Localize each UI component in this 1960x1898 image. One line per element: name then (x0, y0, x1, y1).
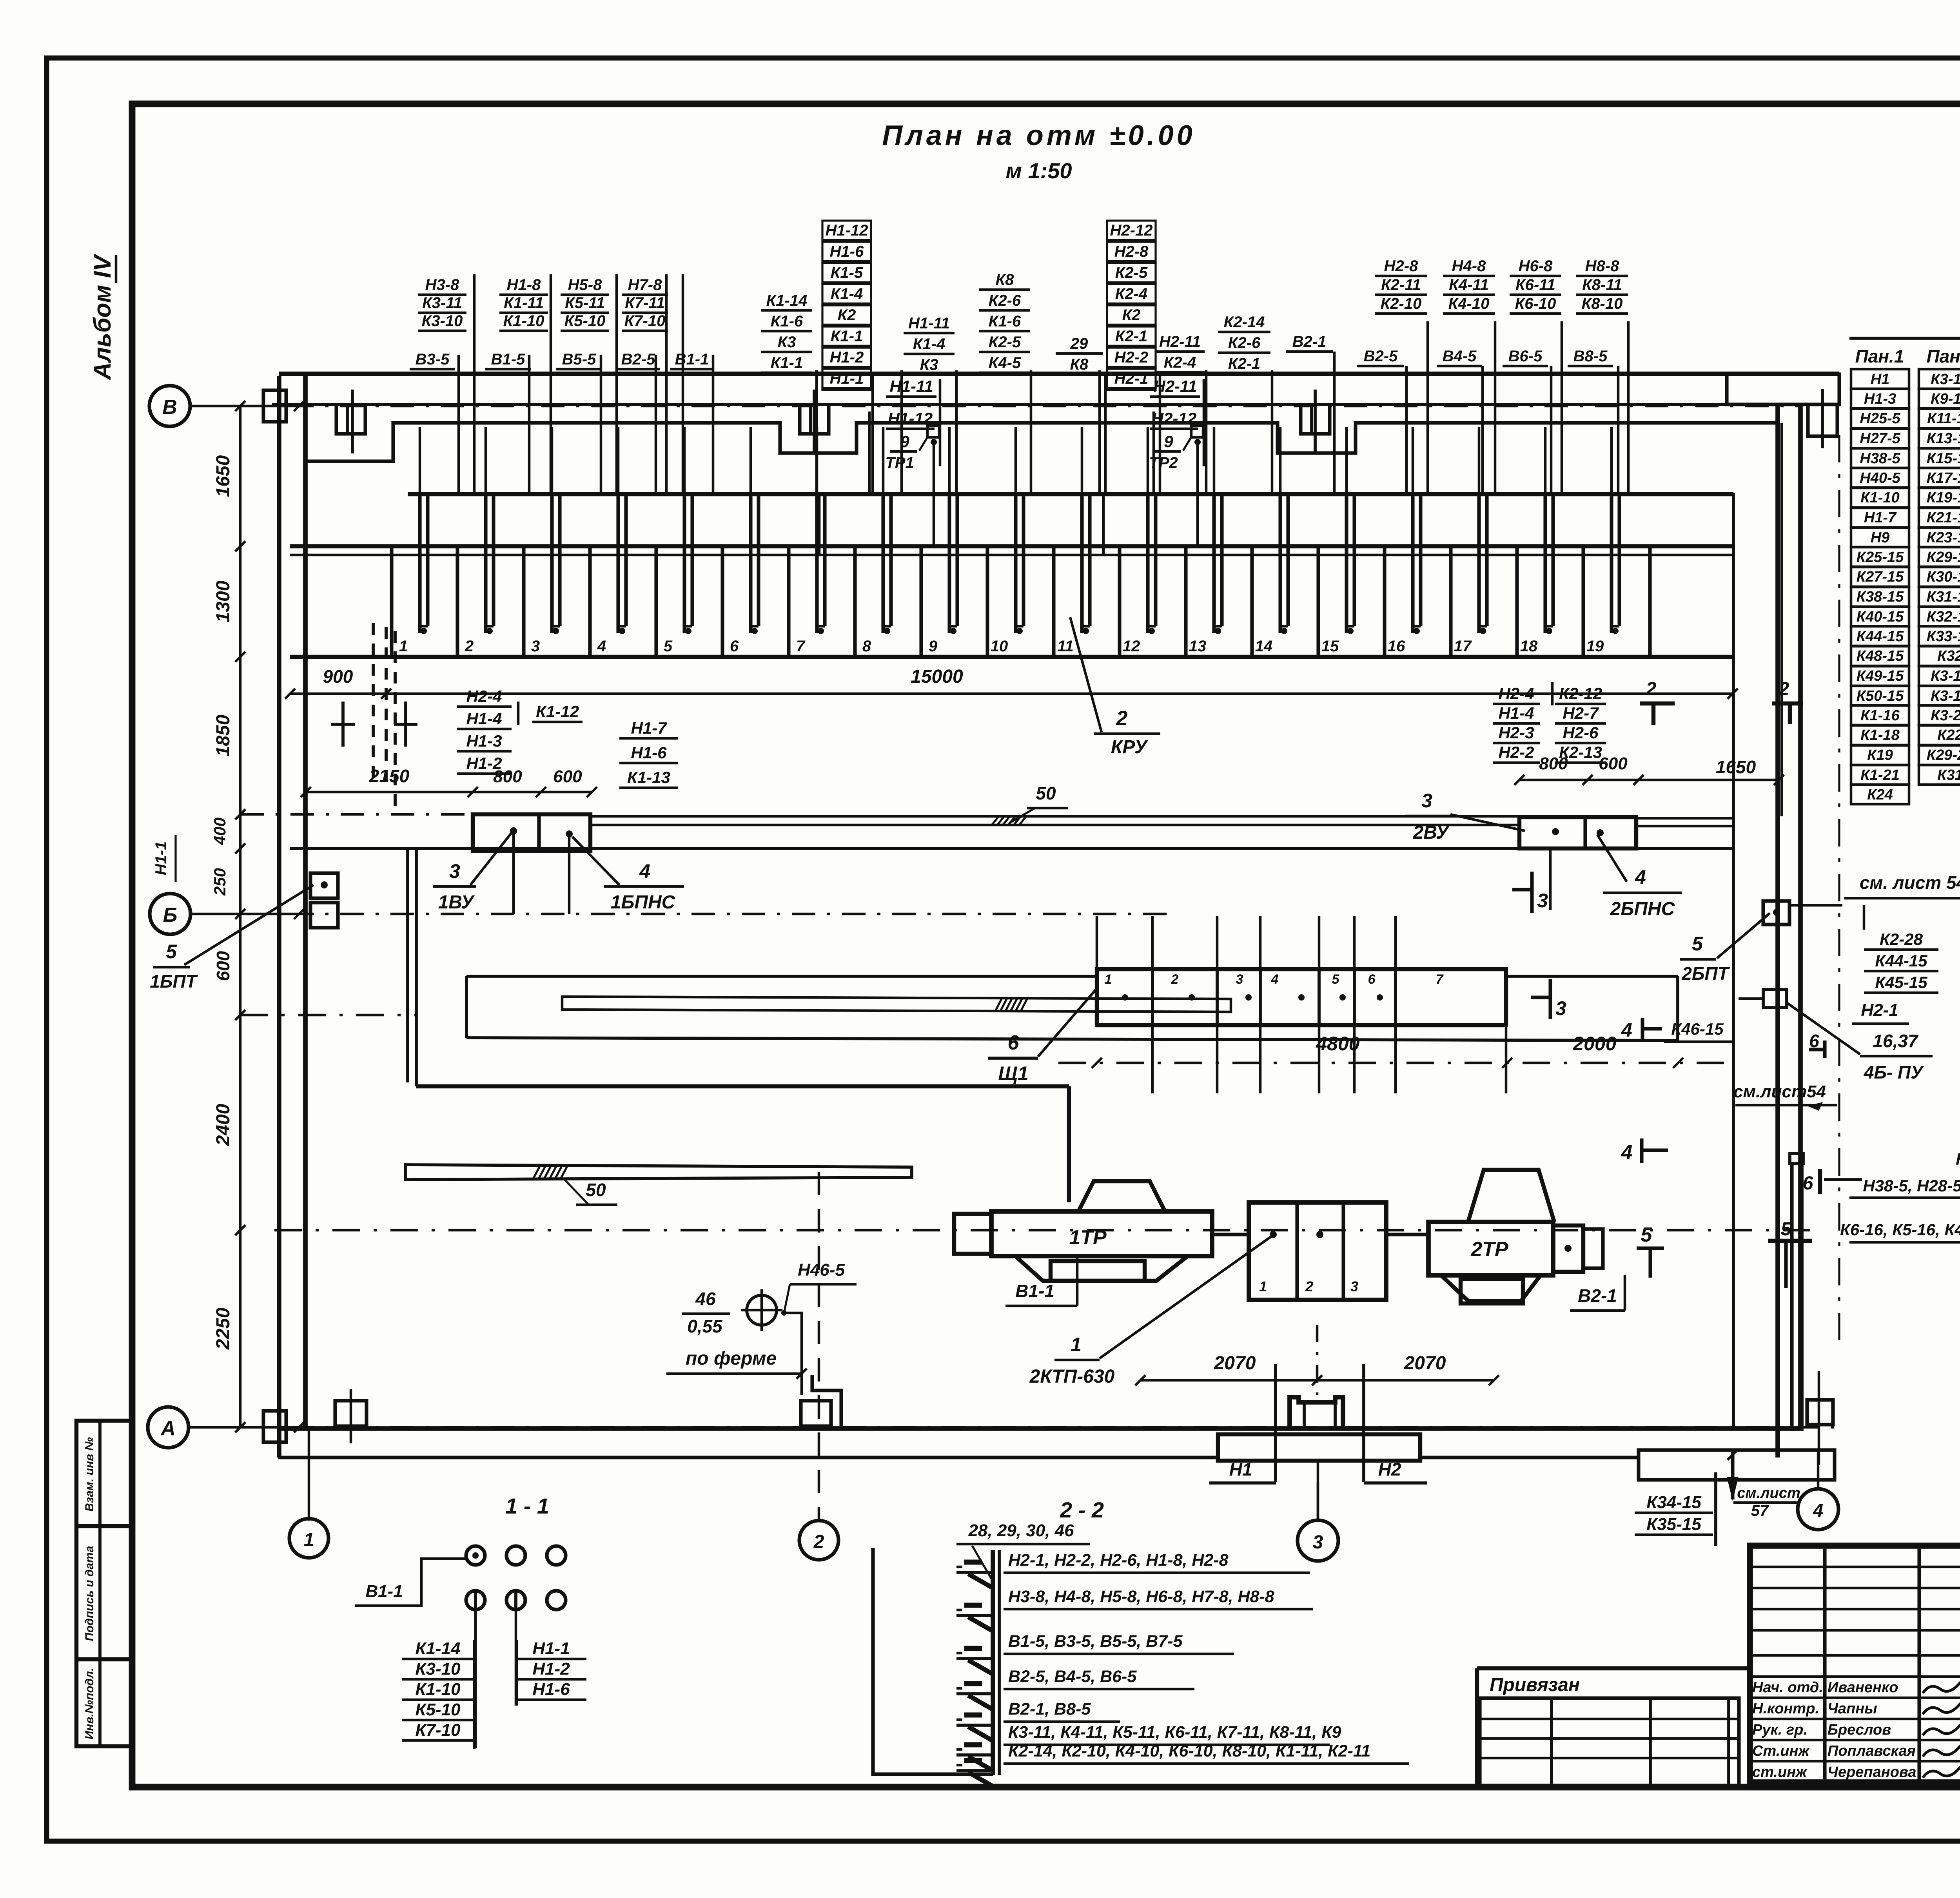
grid axis В line (190, 405, 290, 408)
svg-text:Нач. отд.: Нач. отд. (1752, 1679, 1823, 1696)
title block outer box (1750, 1546, 1960, 1782)
svg-text:К17-15: К17-15 (1927, 470, 1960, 486)
svg-text:4: 4 (597, 638, 606, 655)
svg-text:13: 13 (1189, 638, 1207, 655)
cable route to 2КТП (416, 1084, 1069, 1088)
left wall pilaster at В (263, 390, 286, 422)
svg-text:Н1-12: Н1-12 (888, 409, 933, 428)
svg-text:16: 16 (1388, 638, 1405, 655)
svg-text:К6-16, К5-16, К4-16, К3-16, К2: К6-16, К5-16, К4-16, К3-16, К2-16, К1-16 (1840, 1220, 1960, 1239)
svg-text:1850: 1850 (213, 714, 234, 756)
svg-text:К4-10: К4-10 (1448, 295, 1490, 312)
svg-text:Н8-8: Н8-8 (1585, 257, 1619, 275)
svg-text:2250: 2250 (213, 1307, 234, 1350)
svg-text:2: 2 (1116, 707, 1128, 730)
transformer 1ТР bottom skirt (1015, 1256, 1188, 1281)
svg-text:2 - 2: 2 - 2 (1060, 1497, 1104, 1522)
svg-text:1БПТ: 1БПТ (150, 971, 198, 992)
left dimension chain (239, 406, 242, 1427)
svg-text:Щ1: Щ1 (998, 1062, 1028, 1084)
svg-text:4: 4 (1271, 972, 1279, 987)
substation 2КТП-630 (1249, 1202, 1386, 1300)
lower channel bottom edge (466, 1038, 1678, 1041)
svg-text:0,55: 0,55 (687, 1316, 723, 1336)
grid axis В circle (149, 386, 190, 426)
svg-text:К1-12: К1-12 (536, 702, 579, 721)
svg-text:6: 6 (1803, 1173, 1813, 1194)
svg-text:ТР1: ТР1 (885, 454, 914, 471)
pilaster boxes at Б (310, 873, 338, 898)
svg-text:3: 3 (1350, 1278, 1358, 1294)
svg-text:К19-15: К19-15 (1927, 489, 1960, 506)
axis 4 circle (1798, 1489, 1838, 1530)
svg-text:В1-1: В1-1 (675, 351, 709, 368)
svg-text:3: 3 (1313, 1532, 1323, 1553)
svg-text:11: 11 (1057, 638, 1074, 655)
svg-text:К5-10: К5-10 (564, 312, 606, 330)
svg-text:Н2-4: Н2-4 (1498, 684, 1534, 703)
svg-text:Н1: Н1 (1871, 371, 1890, 388)
svg-text:250: 250 (211, 868, 229, 896)
2БПТ box (1763, 901, 1789, 925)
right wall riser (1732, 493, 1735, 1428)
svg-text:3: 3 (1236, 972, 1243, 987)
svg-text:К21-15: К21-15 (1927, 509, 1960, 526)
axis 1 circle (289, 1519, 328, 1558)
svg-text:6: 6 (1368, 972, 1376, 987)
svg-text:Н5-8: Н5-8 (568, 276, 602, 294)
svg-text:К25-15: К25-15 (1857, 549, 1904, 566)
grid axis А circle (148, 1407, 189, 1448)
svg-text:2ТР: 2ТР (1470, 1238, 1508, 1261)
svg-text:2070: 2070 (1214, 1353, 1256, 1374)
dimension 2070 2070 (1140, 1379, 1494, 1382)
svg-text:Н2-8: Н2-8 (1384, 257, 1418, 275)
machine-hall centre axis (274, 1229, 1819, 1232)
svg-text:Н2-8: Н2-8 (1114, 243, 1149, 260)
svg-text:Ст.инж: Ст.инж (1752, 1743, 1810, 1759)
svg-text:К1-10: К1-10 (503, 312, 544, 330)
svg-text:К2-1: К2-1 (1115, 328, 1147, 345)
svg-text:К1-10: К1-10 (415, 1680, 461, 1699)
svg-text:4800: 4800 (1316, 1033, 1359, 1055)
svg-text:9: 9 (900, 432, 909, 451)
svg-text:1: 1 (399, 638, 408, 655)
svg-text:6: 6 (1809, 1031, 1819, 1051)
svg-text:В2-5: В2-5 (1364, 348, 1398, 365)
svg-text:Н1-1: Н1-1 (830, 370, 864, 387)
svg-text:К2-14, К2-10, К4-10, К6-10, К8: К2-14, К2-10, К4-10, К6-10, К8-10, К1-11… (1008, 1742, 1370, 1760)
svg-text:2БПНС: 2БПНС (1610, 899, 1675, 919)
svg-text:3: 3 (449, 860, 460, 882)
svg-text:В2-5, В4-5, В6-5: В2-5, В4-5, В6-5 (1008, 1667, 1137, 1686)
section mark 3 at channel (1548, 979, 1552, 1019)
dimension 4800 2000 (1092, 1058, 1102, 1068)
section mark 3 below 1ВУ row (1530, 872, 1534, 913)
svg-text:К2-13: К2-13 (1559, 743, 1602, 761)
svg-text:К2-6: К2-6 (989, 292, 1021, 309)
svg-text:1300: 1300 (213, 580, 234, 622)
axis 2 circle (799, 1521, 838, 1560)
svg-text:5: 5 (1692, 933, 1703, 955)
svg-text:К3-16: К3-16 (1931, 668, 1960, 684)
svg-text:29: 29 (1070, 335, 1088, 352)
svg-text:Н2-1: Н2-1 (1114, 370, 1149, 387)
svg-text:К34-15: К34-15 (1646, 1493, 1701, 1512)
cross tick symbols (341, 702, 345, 747)
svg-text:50: 50 (586, 1180, 606, 1200)
svg-text:3: 3 (1537, 890, 1548, 912)
svg-text:Инв.№подл.: Инв.№подл. (83, 1668, 96, 1740)
svg-text:600: 600 (553, 767, 582, 786)
svg-text:2: 2 (1779, 679, 1789, 700)
bottom wall column at axis 1 (335, 1401, 367, 1426)
svg-text:В8-5: В8-5 (1573, 348, 1608, 365)
svg-text:Н1-11: Н1-11 (908, 315, 950, 332)
svg-text:К2: К2 (838, 306, 856, 324)
section 1-1 cable circles row 1 (466, 1546, 485, 1565)
svg-text:К8-11: К8-11 (1582, 276, 1622, 294)
svg-text:В1-5, В3-5, В5-5, В7-5: В1-5, В3-5, В5-5, В7-5 (1008, 1632, 1183, 1651)
svg-text:К2-5: К2-5 (989, 334, 1021, 351)
svg-text:7: 7 (1436, 972, 1444, 987)
svg-text:2: 2 (813, 1532, 824, 1552)
svg-text:Чапны: Чапны (1828, 1700, 1877, 1717)
svg-text:Н3-8, Н4-8, Н5-8, Н6-8, Н7-8,: Н3-8, Н4-8, Н5-8, Н6-8, Н7-8, Н8-8 (1008, 1587, 1274, 1606)
svg-text:7: 7 (796, 638, 806, 655)
svg-text:ст.инж: ст.инж (1752, 1764, 1808, 1780)
svg-text:5: 5 (166, 941, 177, 963)
svg-text:К1-6: К1-6 (771, 313, 803, 330)
svg-text:3: 3 (1421, 790, 1432, 812)
svg-text:1650: 1650 (1716, 757, 1756, 777)
svg-text:В6-5: В6-5 (1508, 348, 1543, 365)
svg-text:2: 2 (1646, 679, 1657, 700)
svg-text:Н.контр.: Н.контр. (1752, 1700, 1819, 1717)
grid axis А line (189, 1426, 290, 1429)
svg-text:Привязан: Привязан (1490, 1675, 1580, 1695)
svg-text:К3-18: К3-18 (1931, 688, 1960, 704)
svg-text:К1-5: К1-5 (831, 264, 863, 281)
svg-text:К3-11: К3-11 (422, 294, 462, 312)
Щ1 cell divider risers (1151, 916, 1154, 969)
svg-text:К33-15: К33-15 (1927, 628, 1960, 645)
svg-text:К3-10: К3-10 (1931, 371, 1960, 388)
svg-text:4: 4 (1621, 1141, 1633, 1164)
svg-text:Н1-7: Н1-7 (1864, 509, 1897, 526)
svg-text:К8-10: К8-10 (1582, 295, 1623, 312)
svg-text:К27-15: К27-15 (1857, 569, 1904, 585)
svg-text:К1-14: К1-14 (415, 1639, 460, 1658)
svg-text:К3: К3 (920, 356, 938, 373)
transformer 2ТР bottom skirt (1441, 1275, 1541, 1301)
svg-text:46: 46 (695, 1289, 716, 1309)
svg-text:1: 1 (1105, 972, 1112, 987)
ТР1 riser symbol (927, 426, 939, 437)
svg-text:Взам. инв №: Взам. инв № (83, 1437, 96, 1512)
svg-text:Н1-2: Н1-2 (532, 1659, 570, 1679)
svg-text:Н1-6: Н1-6 (830, 243, 864, 260)
cut line near table (1838, 435, 1840, 1344)
svg-text:Н1-8: Н1-8 (507, 276, 541, 294)
svg-text:В2-1: В2-1 (1578, 1285, 1617, 1306)
2ВУ cabinet (1519, 817, 1636, 848)
svg-text:600: 600 (213, 951, 233, 981)
pump pedestal П between axes (1290, 1397, 1343, 1428)
svg-text:К1-1: К1-1 (831, 328, 863, 345)
table column Пан.2 (1919, 369, 1960, 389)
svg-text:3: 3 (1555, 997, 1566, 1019)
svg-text:Поплавская: Поплавская (1828, 1743, 1916, 1759)
svg-text:Н4-8: Н4-8 (1452, 257, 1486, 275)
trench dashes near axis 1 (372, 623, 375, 784)
svg-text:5: 5 (1641, 1224, 1653, 1246)
svg-text:17: 17 (1454, 638, 1472, 655)
svg-text:5: 5 (1332, 972, 1340, 987)
svg-text:А: А (160, 1417, 176, 1440)
top outer wall (279, 372, 1839, 376)
svg-text:Н2-11: Н2-11 (1159, 333, 1201, 350)
svg-text:Н2-7: Н2-7 (1563, 704, 1599, 722)
svg-text:18: 18 (1520, 638, 1538, 655)
1ВУ cabinet (473, 814, 590, 851)
svg-text:Бреслов: Бреслов (1828, 1722, 1891, 1738)
pump axis risers Н1 Н2 (1274, 1364, 1277, 1482)
risers from stacks to КРУ row (473, 274, 476, 494)
window opening at axis 2 (800, 406, 829, 434)
svg-text:15000: 15000 (911, 666, 963, 687)
svg-text:К2-12: К2-12 (1559, 684, 1602, 703)
svg-text:К1-13: К1-13 (627, 768, 670, 787)
svg-text:К1-10: К1-10 (1860, 489, 1899, 506)
svg-text:К2-5: К2-5 (1115, 264, 1148, 281)
svg-text:Альбом IV: Альбом IV (89, 253, 116, 381)
svg-text:В1-1: В1-1 (1015, 1281, 1054, 1301)
section 2-2 wall L-profile (873, 1548, 993, 1774)
svg-text:В5-5: В5-5 (562, 351, 596, 368)
svg-text:12: 12 (1123, 638, 1140, 655)
svg-text:Н1-2: Н1-2 (830, 349, 864, 366)
svg-text:К48-15: К48-15 (1857, 648, 1904, 664)
svg-text:4: 4 (1635, 866, 1646, 888)
svg-text:2: 2 (1305, 1278, 1313, 1294)
svg-text:2БПТ: 2БПТ (1681, 963, 1730, 984)
svg-text:К35-15: К35-15 (1646, 1515, 1701, 1534)
lower channel top edge (466, 975, 1097, 978)
svg-text:Н27-5: Н27-5 (1860, 430, 1900, 447)
svg-text:Н2-2: Н2-2 (1498, 743, 1534, 761)
svg-text:1: 1 (1259, 1278, 1267, 1294)
svg-text:В1-5: В1-5 (491, 351, 525, 368)
svg-text:К7-10: К7-10 (415, 1720, 461, 1740)
svg-text:К3-21: К3-21 (1931, 707, 1960, 724)
svg-text:Н1-3: Н1-3 (466, 732, 502, 750)
transformer 1ТР left terminal box (954, 1214, 991, 1254)
svg-text:К3-11, К4-11, К5-11, К6-11, К7: К3-11, К4-11, К5-11, К6-11, К7-11, К8-11… (1008, 1723, 1341, 1742)
annex box (1807, 1400, 1833, 1425)
svg-text:К32-15: К32-15 (1927, 609, 1960, 625)
svg-text:К1-1: К1-1 (771, 354, 803, 372)
svg-text:Н3-8: Н3-8 (425, 276, 459, 294)
svg-text:1ВУ: 1ВУ (438, 892, 475, 913)
window opening at axis 1 (336, 406, 365, 434)
svg-text:К2-1: К2-1 (1228, 355, 1260, 372)
svg-text:К30-15: К30-15 (1927, 569, 1960, 585)
svg-text:Н2-6: Н2-6 (1563, 723, 1599, 742)
svg-text:6: 6 (1008, 1031, 1020, 1054)
svg-text:57: 57 (1751, 1502, 1769, 1519)
svg-text:В2-5: В2-5 (621, 351, 655, 368)
Привязан annotation table (1475, 1668, 1479, 1787)
long risers from tray down to channel outer edge (406, 848, 409, 1082)
svg-text:1 - 1: 1 - 1 (505, 1494, 549, 1518)
pump foundation footing (1218, 1434, 1420, 1461)
svg-text:Н2: Н2 (1378, 1459, 1401, 1479)
dimension 2150 800 600 left (306, 791, 592, 794)
rack shelves with hooks (956, 1571, 993, 1574)
svg-text:К49-15: К49-15 (1857, 668, 1904, 684)
svg-text:К13-15: К13-15 (1927, 430, 1960, 447)
svg-text:К5-10: К5-10 (415, 1700, 461, 1719)
svg-text:Н40-5: Н40-5 (1860, 470, 1900, 486)
svg-text:К1-21: К1-21 (1860, 767, 1899, 783)
svg-text:Н1-2: Н1-2 (466, 754, 502, 772)
right wall (1775, 404, 1780, 1457)
ТР2 riser symbol (1191, 426, 1203, 437)
svg-text:В1-1: В1-1 (365, 1582, 403, 1601)
svg-text:К1-18: К1-18 (1860, 727, 1900, 743)
svg-text:Н1-4: Н1-4 (1498, 704, 1534, 722)
right footing block (1639, 1450, 1835, 1480)
svg-text:Н2-1, Н2-2, Н2-6, Н1-8, Н2-8: Н2-1, Н2-2, Н2-6, Н1-8, Н2-8 (1008, 1551, 1229, 1570)
dimension axis 4800 2000 (1058, 1062, 1733, 1064)
right annex cable riser (1790, 1153, 1803, 1164)
svg-text:8: 8 (862, 638, 871, 655)
window opening right end (1808, 404, 1837, 436)
svg-text:К50-15: К50-15 (1857, 688, 1904, 704)
svg-text:К19: К19 (1867, 747, 1893, 763)
svg-text:2070: 2070 (1404, 1353, 1446, 1374)
svg-text:К8: К8 (1070, 356, 1089, 373)
svg-text:К1-16: К1-16 (1860, 707, 1900, 724)
svg-text:Н1-11: Н1-11 (889, 377, 933, 395)
svg-text:К5-11: К5-11 (565, 294, 605, 312)
svg-text:К2-28: К2-28 (1880, 930, 1923, 948)
svg-text:Н1-12: Н1-12 (826, 222, 868, 239)
svg-text:Рук. гр.: Рук. гр. (1752, 1722, 1808, 1738)
svg-text:1: 1 (1071, 1334, 1082, 1356)
svg-text:2000: 2000 (1572, 1033, 1616, 1055)
svg-text:К40-15: К40-15 (1857, 609, 1904, 625)
title block left grid (1823, 1546, 1826, 1782)
svg-text:5: 5 (1781, 1219, 1792, 1240)
svg-text:400: 400 (211, 818, 229, 845)
svg-text:В4-5: В4-5 (1443, 348, 1477, 365)
section 1-1 cable circles row 2 (466, 1591, 485, 1610)
svg-text:см. лист 54: см. лист 54 (1860, 872, 1960, 893)
svg-text:К4-11: К4-11 (1449, 276, 1489, 294)
bar 50 in lower hall (405, 1165, 912, 1180)
svg-text:Н1-1: Н1-1 (152, 841, 170, 876)
svg-text:К32: К32 (1937, 648, 1960, 664)
svg-text:2400: 2400 (213, 1104, 234, 1146)
svg-text:2: 2 (1171, 972, 1179, 987)
Щ1 cell dots (1122, 994, 1128, 1001)
svg-text:К29-25: К29-25 (1927, 747, 1960, 763)
cable-channel axis (240, 1014, 416, 1017)
section mark 6 right wall (1823, 1041, 1826, 1058)
svg-text:Н2-1: Н2-1 (1861, 1001, 1898, 1020)
left wall pilaster at А (263, 1411, 286, 1442)
svg-text:К24: К24 (1867, 787, 1893, 803)
svg-text:16,37: 16,37 (1873, 1031, 1919, 1051)
svg-text:Н9: Н9 (1871, 529, 1890, 546)
svg-text:2ВУ: 2ВУ (1413, 822, 1450, 843)
svg-text:Н2-3: Н2-3 (1498, 723, 1534, 742)
signature squiggles (1923, 1680, 1960, 1693)
transformer 1ТР body (991, 1211, 1212, 1256)
svg-text:по ферме: по ферме (686, 1348, 777, 1369)
svg-text:К31-15: К31-15 (1927, 589, 1960, 605)
table top line with brace (1849, 337, 1960, 340)
svg-text:Н1-6: Н1-6 (532, 1680, 570, 1699)
grid axis Б circle (150, 894, 191, 934)
svg-text:Н1: Н1 (1229, 1459, 1252, 1479)
svg-text:К3-10: К3-10 (415, 1659, 461, 1679)
wall face line on axis В (272, 403, 1800, 406)
svg-text:К11-15: К11-15 (1927, 410, 1960, 427)
svg-text:К3: К3 (778, 334, 796, 351)
svg-text:К46-15: К46-15 (1671, 1020, 1724, 1038)
svg-text:м 1:50: м 1:50 (1005, 158, 1072, 183)
svg-text:см.лист54: см.лист54 (1733, 1082, 1826, 1101)
svg-text:Н2-2: Н2-2 (1114, 349, 1149, 366)
svg-text:Н6-8: Н6-8 (1519, 257, 1553, 275)
svg-text:К44-15: К44-15 (1875, 952, 1927, 970)
svg-text:Иваненко: Иваненко (1828, 1679, 1898, 1696)
svg-text:Н2-12: Н2-12 (1152, 409, 1196, 428)
hall floor line (290, 655, 1733, 659)
svg-text:50: 50 (1036, 783, 1056, 803)
КРУ row top chord (408, 492, 1733, 496)
svg-text:Н38-5, Н28-5, Н27-5, Н26-5, Н2: Н38-5, Н28-5, Н27-5, Н26-5, Н25-5 (1863, 1177, 1960, 1195)
svg-text:Н1-1: Н1-1 (532, 1639, 570, 1658)
svg-text:Н1-4: Н1-4 (466, 709, 502, 728)
svg-text:1БПНС: 1БПНС (611, 892, 676, 913)
svg-text:К38-15: К38-15 (1857, 589, 1904, 605)
svg-text:4: 4 (639, 860, 650, 882)
svg-text:К23-15: К23-15 (1927, 529, 1960, 546)
svg-text:Подпись и дата: Подпись и дата (83, 1546, 96, 1641)
bottom wall column at axis 2 (801, 1401, 831, 1426)
svg-text:К2: К2 (1122, 306, 1141, 324)
long risers through hall (818, 494, 821, 555)
svg-text:К1-6: К1-6 (989, 313, 1021, 330)
transformer 2ТР terminal boxes (1553, 1225, 1583, 1272)
dimension 900 / 15000 (290, 692, 1733, 695)
svg-text:Н2-4: Н2-4 (466, 687, 502, 705)
svg-text:В3-5: В3-5 (416, 351, 450, 368)
dimension 800 600 1650 right (1519, 779, 1779, 781)
svg-text:Пан.2: Пан.2 (1927, 346, 1960, 366)
hall inner wall line (290, 544, 1733, 548)
svg-text:Черепанова: Черепанова (1828, 1764, 1916, 1780)
svg-text:План на отм ±0.00: План на отм ±0.00 (882, 120, 1196, 151)
svg-text:Пан.1: Пан.1 (1855, 346, 1904, 366)
svg-text:К4-5: К4-5 (989, 354, 1021, 372)
svg-text:К7-11: К7-11 (625, 294, 665, 312)
svg-text:19: 19 (1586, 638, 1604, 655)
